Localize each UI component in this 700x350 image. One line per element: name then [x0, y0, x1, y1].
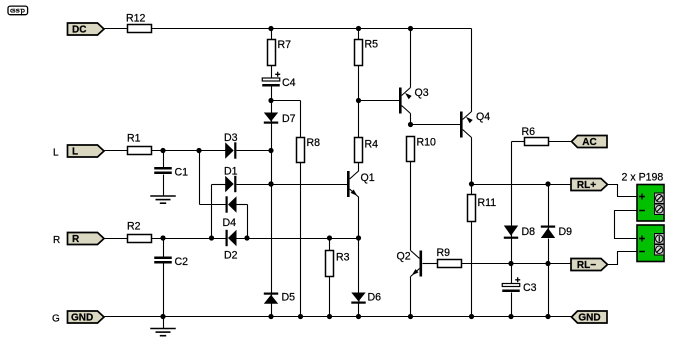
wire C2 to gnd rail — [163, 264, 165, 317]
svg-text:D2: D2 — [224, 250, 238, 262]
wire R8 top lead — [300, 101, 302, 138]
wire R row to C2 — [163, 239, 165, 257]
resistor R5 — [355, 39, 379, 66]
wire R9 row to C3 — [511, 264, 513, 284]
svg-text:R: R — [72, 234, 80, 245]
junction top rail R5 — [356, 26, 361, 31]
junction Q4 collector RL+ — [469, 181, 474, 186]
junction Q3 collector R10 Q4 base — [408, 122, 413, 127]
junction Q1 emitter row — [356, 235, 361, 240]
node R tag — [68, 233, 105, 246]
wire R6 to AC tag — [549, 141, 572, 143]
junction D7 col D1 — [268, 181, 273, 186]
capacitor C2 — [154, 256, 188, 268]
wire to D6 — [358, 239, 360, 293]
capacitor C1 — [154, 167, 188, 179]
wire Q4 emitter to rail — [471, 29, 473, 112]
ESP logo — [8, 6, 28, 15]
svg-text:GND: GND — [578, 313, 600, 324]
svg-text:L: L — [53, 148, 59, 159]
capacitor C4 — [262, 72, 295, 89]
resistor R6 — [522, 126, 549, 146]
wire Q2 emitter to gnd — [410, 277, 412, 317]
svg-text:C4: C4 — [282, 77, 296, 89]
svg-text:D7: D7 — [282, 113, 296, 125]
svg-text:D3: D3 — [224, 132, 238, 144]
svg-text:C3: C3 — [523, 282, 537, 294]
junction D1 branch R row — [209, 235, 214, 240]
junction gnd rail Q2 emitter — [408, 314, 413, 319]
svg-text:G: G — [52, 314, 60, 325]
junction Q3 base node — [356, 98, 361, 103]
wire D6 to gnd rail — [358, 304, 360, 317]
wire C1 to ground — [163, 175, 165, 197]
diode D8 — [504, 226, 535, 239]
wire D3 to column — [237, 150, 272, 152]
svg-text:Q3: Q3 — [415, 87, 429, 99]
wire L branch down — [199, 151, 201, 205]
svg-text:D5: D5 — [282, 292, 296, 304]
wire R11 to gnd rail — [471, 222, 473, 317]
svg-text:R9: R9 — [437, 247, 451, 259]
wire C3 to gnd rail — [511, 293, 513, 317]
wire R2 to D2 — [152, 238, 226, 240]
wire C4 node to R8 — [272, 100, 301, 102]
junction D9 top — [545, 181, 550, 186]
wire R10 to Q2 collector — [410, 162, 412, 251]
transistor Q1 — [347, 171, 375, 197]
diode D4 — [223, 196, 237, 229]
wire Q4 base — [411, 124, 461, 126]
svg-text:D8: D8 — [522, 226, 536, 238]
wire R6 left — [512, 141, 525, 143]
wire R4 to Q1 collector — [358, 163, 360, 172]
wire Q1 emitter down — [358, 197, 360, 239]
svg-text:D6: D6 — [368, 292, 382, 304]
svg-text:Q1: Q1 — [361, 172, 375, 184]
wire Q3 base — [359, 100, 400, 102]
wire D9 node to gnd rail — [548, 264, 550, 317]
resistor R3 — [326, 251, 350, 277]
wire R3 to gnd rail — [329, 277, 331, 317]
svg-text:R4: R4 — [365, 139, 379, 151]
junction D8 C3 R9 — [508, 261, 513, 266]
resistor R7 — [268, 39, 292, 66]
wire D1 to Q1 base — [237, 184, 348, 186]
resistor R11 — [468, 195, 497, 222]
diode D2 — [224, 230, 238, 262]
junction R3 top — [327, 235, 332, 240]
wire Q3 emitter to rail — [410, 29, 412, 88]
junction C1 — [160, 148, 165, 153]
junction gnd rail C2 — [160, 314, 165, 319]
svg-text:RL+: RL+ — [577, 180, 596, 191]
junction gnd rail D6 — [356, 314, 361, 319]
resistor R12 — [126, 13, 152, 33]
junction top rail Q3 — [408, 26, 413, 31]
wire R tag to R2 — [105, 238, 128, 240]
wire R8 to gnd rail — [300, 163, 302, 317]
wire top rail — [152, 28, 472, 30]
resistor R8 — [297, 137, 321, 163]
resistor R10 — [407, 137, 437, 162]
svg-text:R7: R7 — [278, 39, 292, 51]
junction gnd rail D9 — [545, 314, 550, 319]
junction gnd rail R11 — [469, 314, 474, 319]
resistor R2 — [127, 221, 152, 243]
terminal block 1 (P198) — [637, 185, 664, 222]
svg-text:D1: D1 — [224, 166, 238, 178]
wire R3 top lead — [329, 239, 331, 251]
junction gnd rail R3 — [327, 314, 332, 319]
svg-text:Q2: Q2 — [397, 251, 411, 263]
wire Q4 collector down — [471, 138, 473, 195]
wire D7 down to D5 — [271, 124, 273, 293]
diode D7 — [264, 113, 296, 126]
terminal block 2 (P198) — [637, 225, 664, 262]
svg-text:L: L — [72, 147, 78, 158]
wire ground rail — [105, 316, 572, 318]
svg-text:RL−: RL− — [577, 260, 596, 271]
wire D2 to Q1 emitter — [237, 238, 359, 240]
wire to D1 — [212, 184, 226, 186]
svg-text:R8: R8 — [307, 137, 321, 149]
wire RL+ to D9 — [548, 185, 550, 226]
svg-text:D4: D4 — [223, 217, 237, 229]
junction gnd rail D5 — [268, 314, 273, 319]
wire R9 to RL- tag — [462, 263, 572, 265]
wire D5 to gnd rail — [271, 304, 273, 317]
svg-text:2 x P198: 2 x P198 — [622, 172, 664, 184]
svg-text:R5: R5 — [365, 39, 379, 51]
svg-text:R3: R3 — [336, 252, 350, 264]
wire D8 to R9 row — [511, 239, 513, 264]
junction C4 D7 R8 — [268, 98, 273, 103]
junction D9 RL- — [545, 261, 550, 266]
svg-text:AC: AC — [582, 137, 596, 148]
svg-text:DC: DC — [72, 25, 86, 36]
junction D7 col D3 — [268, 148, 273, 153]
wire Q2 base to R9 — [423, 263, 438, 265]
diode D6 — [351, 292, 381, 304]
node AC tag — [572, 136, 608, 149]
wire D4 to R row — [247, 205, 249, 239]
svg-text:R1: R1 — [127, 133, 141, 145]
svg-text:GND: GND — [71, 313, 93, 324]
diode D9 — [541, 226, 572, 239]
svg-text:R: R — [53, 235, 60, 246]
wire L tag to R1 — [105, 150, 128, 152]
wire R6 node to D8 — [511, 142, 513, 226]
resistor R4 — [355, 138, 379, 163]
resistor R1 — [127, 133, 152, 155]
capacitor C3 — [502, 277, 536, 294]
transistor Q4 — [460, 111, 490, 138]
junction gnd rail R8 — [298, 314, 303, 319]
wire terminal 1 minus to terminal 2 plus — [615, 211, 638, 239]
diode D3 — [224, 132, 238, 159]
junction C2 — [160, 235, 165, 240]
svg-text:R2: R2 — [127, 221, 141, 233]
svg-text:Q4: Q4 — [476, 111, 490, 123]
junction D4 R row — [244, 235, 249, 240]
wire rail to R5 — [358, 29, 360, 40]
diode D5 — [264, 292, 295, 304]
node GND left tag — [68, 311, 105, 324]
wire R1 to D3 — [152, 150, 226, 152]
junction top rail R7 — [268, 26, 273, 31]
wire rail corner — [471, 28, 473, 30]
ground symbol bottom — [150, 329, 176, 336]
node GND right tag — [572, 311, 608, 324]
wire RL+ row — [472, 184, 572, 186]
svg-text:R11: R11 — [478, 197, 497, 209]
wire D4 right — [237, 204, 248, 206]
wire terminal 2 minus to RL- — [608, 252, 638, 265]
ground C1 — [150, 196, 176, 203]
node RL- tag — [571, 259, 608, 272]
wire D1 anode down — [211, 185, 213, 239]
node RL+ tag — [571, 179, 608, 192]
resistor R9 — [437, 247, 462, 268]
transistor Q3 — [399, 87, 429, 114]
svg-text:R10: R10 — [417, 137, 437, 149]
svg-text:R6: R6 — [522, 126, 536, 138]
wire D9 to RL- row — [548, 239, 550, 264]
wire L row to C1 — [163, 151, 165, 168]
diode D1 — [224, 166, 238, 193]
transistor Q2 — [397, 251, 423, 277]
junction D1 column — [268, 181, 273, 186]
junction gnd rail C3 — [508, 314, 513, 319]
svg-text:R12: R12 — [126, 13, 146, 25]
node DC tag — [68, 23, 105, 36]
wire C4 to D7 — [271, 87, 273, 113]
wire rail to R7 — [271, 29, 273, 40]
wire RL+ to terminal 1 plus — [608, 185, 638, 197]
wire gnd rail to ground symbol — [163, 317, 165, 329]
wire R5 to R4 — [358, 66, 360, 138]
wire Q3 collector down — [410, 114, 412, 125]
node L tag — [68, 145, 105, 158]
svg-text:C1: C1 — [175, 167, 189, 179]
wire DC tag to R12 — [105, 28, 128, 30]
junction L D4 branch — [196, 148, 201, 153]
svg-text:D9: D9 — [559, 226, 573, 238]
svg-text:C2: C2 — [175, 256, 189, 268]
wire to D4 — [200, 204, 226, 206]
wire R7 to C4 — [271, 66, 273, 79]
